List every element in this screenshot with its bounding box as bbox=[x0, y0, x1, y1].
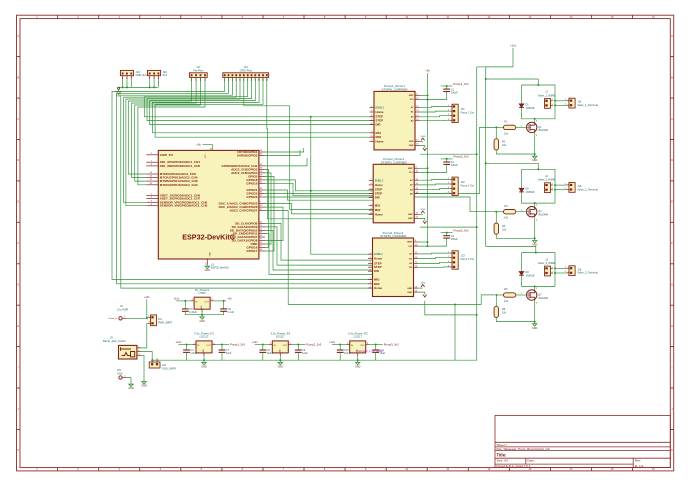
svg-text:3V3: 3V3 bbox=[205, 155, 207, 158]
wire Pump2_Driver1 out 2 bbox=[419, 183, 450, 186]
wire valve2 loop bbox=[522, 169, 556, 203]
wire Pump2_Driver1 out 3 bbox=[419, 189, 450, 190]
svg-text:PWR_JMPR: PWR_JMPR bbox=[158, 321, 172, 324]
wire +12v vertical rail bbox=[485, 67, 487, 247]
wire Pump1_Driver1 VCC to cap bbox=[420, 92, 447, 100]
wire Q7 source bbox=[534, 300, 536, 322]
wire Pump2_Driver1 out 4 bbox=[419, 192, 450, 194]
wire to J15 pin1 bbox=[555, 184, 566, 186]
wire gate to R2 bbox=[495, 295, 497, 306]
ground at J10 bbox=[129, 382, 133, 387]
wire to J16 pin1 bbox=[555, 267, 566, 269]
wire GPIO23 to valve2 gate bbox=[265, 197, 497, 212]
ground under 3.3v_Power_P2 bbox=[278, 360, 282, 365]
wire gate to R2 bbox=[495, 127, 497, 138]
wire GND bus under J19/J20 bbox=[119, 86, 158, 88]
wire +12v flag down bbox=[146, 299, 148, 318]
wire Q1 drain bbox=[534, 119, 536, 123]
wire L7805 out to +5v bbox=[214, 300, 226, 302]
wire GPIO26 loop bbox=[265, 207, 283, 240]
svg-text:G: G bbox=[671, 283, 673, 287]
svg-text:GND: GND bbox=[205, 269, 211, 272]
svg-text:Pump2_3v3: Pump2_3v3 bbox=[454, 155, 469, 159]
svg-text:32K_XN/GPIO33/ADC1_CH5: 32K_XN/GPIO33/ADC1_CH5 bbox=[160, 164, 201, 168]
svg-text:GPIO17: GPIO17 bbox=[246, 249, 257, 253]
svg-text:MSP: MSP bbox=[408, 168, 413, 170]
svg-text:GND_JMPR: GND_JMPR bbox=[162, 367, 176, 370]
U1 right pins bbox=[259, 151, 265, 153]
ground valve2 bbox=[533, 238, 537, 243]
ground under U1 bbox=[205, 264, 209, 269]
svg-text:12v_PWR: 12v_PWR bbox=[117, 309, 128, 312]
svg-text:GND: GND bbox=[141, 385, 147, 388]
svg-text:GND: GND bbox=[421, 283, 426, 285]
svg-text:+12v: +12v bbox=[329, 340, 336, 344]
wire driver2 gnd to bus bbox=[420, 226, 477, 228]
wire J13 pin6 to driver2 M01 bbox=[244, 77, 373, 209]
wire branch to driver3 ENBL2 row bbox=[311, 117, 373, 254]
svg-text:Rev:: Rev: bbox=[635, 459, 642, 463]
svg-text:OUT: OUT bbox=[206, 345, 211, 347]
wire J10 to gnd bbox=[127, 378, 132, 383]
wire J13 pin7 to driver1 STEP bbox=[144, 77, 374, 116]
svg-text:MTDO/GPIO15/ADC2_CH3: MTDO/GPIO15/ADC2_CH3 bbox=[160, 183, 198, 187]
wire to J14 pin2 bbox=[555, 104, 566, 106]
svg-text:OUT: OUT bbox=[360, 345, 365, 347]
svg-text:110uF: 110uF bbox=[344, 352, 351, 355]
svg-text:Pump2_3v3: Pump2_3v3 bbox=[306, 343, 321, 347]
svg-text:Pump 2 Out: Pump 2 Out bbox=[461, 184, 475, 187]
regulator 3.3v_Power_P1 bbox=[193, 332, 216, 356]
wire +12v to L7805 in bbox=[176, 300, 190, 302]
connector J12 GND_JMPR bbox=[149, 362, 160, 368]
wire Pump1_Driver1 MSP to +5v rail bbox=[420, 94, 428, 96]
svg-text:110uF: 110uF bbox=[190, 352, 197, 355]
svg-text:Home: Home bbox=[374, 286, 382, 290]
ground under L7805 bbox=[200, 315, 204, 320]
svg-text:GND: GND bbox=[117, 372, 123, 375]
svg-text:GND: GND bbox=[201, 365, 207, 368]
wire Pump3_Driver1 out 4 bbox=[418, 266, 449, 268]
wire gate left seg bbox=[496, 211, 503, 213]
svg-text:GND: GND bbox=[421, 136, 426, 138]
svg-text:+12v: +12v bbox=[175, 340, 182, 344]
svg-text:ESP32-DevKitC: ESP32-DevKitC bbox=[211, 266, 230, 270]
svg-text:Id: 1/1: Id: 1/1 bbox=[635, 464, 644, 468]
svg-text:+12v: +12v bbox=[510, 44, 517, 48]
svg-text:GND: GND bbox=[199, 320, 205, 323]
wire J13 pin4 to SENSOR_VP bbox=[124, 77, 237, 202]
svg-text:Barrel_Jack_Switch: Barrel_Jack_Switch bbox=[103, 339, 126, 343]
svg-text:J17: J17 bbox=[196, 65, 201, 69]
wire GPIO22 to valve1 gate bbox=[265, 127, 496, 193]
svg-text:0.33uF: 0.33uF bbox=[189, 311, 197, 314]
capacitor C3 body bbox=[443, 236, 450, 238]
wire J17 pin1 to MTDI bbox=[128, 77, 191, 174]
capacitor C7 bbox=[219, 350, 226, 352]
svg-text:CHIP_PU: CHIP_PU bbox=[160, 153, 174, 157]
svg-text:Pump 1 Out: Pump 1 Out bbox=[461, 111, 475, 114]
wire Pump1_Driver1 out 2 bbox=[420, 110, 450, 113]
svg-text:D: D bbox=[671, 158, 673, 162]
wire driver1 gnd to bus bbox=[420, 153, 477, 155]
svg-text:Pump 3 Out: Pump 3 Out bbox=[461, 258, 475, 261]
wire to C5 bbox=[184, 301, 186, 309]
wire J13 pin5 to SENSOR_VN bbox=[126, 77, 240, 205]
wire Q7 drain bbox=[534, 286, 536, 290]
svg-text:GND: GND bbox=[421, 209, 426, 211]
svg-text:Valve_2_Terminal: Valve_2_Terminal bbox=[577, 187, 598, 191]
wire gate left seg bbox=[496, 294, 503, 296]
svg-text:H: H bbox=[17, 324, 19, 328]
svg-text:GND: GND bbox=[128, 387, 134, 390]
wire Pump3_Driver1 VCC to cap bbox=[418, 238, 447, 246]
resistor R4 bbox=[494, 223, 498, 234]
svg-text:Pump1_3v3: Pump1_3v3 bbox=[454, 82, 469, 86]
wire barrel pin2 down bbox=[141, 352, 152, 359]
wire Pump1_Driver1 out 1 bbox=[420, 106, 450, 109]
wire U0RXD stub bbox=[265, 150, 300, 156]
svg-text:M01: M01 bbox=[376, 131, 382, 135]
svg-text:Title:: Title: bbox=[497, 452, 507, 457]
connector J22 Pump Out bbox=[452, 177, 458, 195]
svg-text:Home: Home bbox=[376, 140, 384, 144]
capacitor C6 bbox=[220, 309, 227, 311]
svg-text:Valve_1_Terminal: Valve_1_Terminal bbox=[577, 103, 598, 107]
wire to J16 pin2 bbox=[555, 272, 566, 274]
J13 body bbox=[223, 73, 269, 82]
svg-text:C: C bbox=[17, 117, 19, 121]
svg-text:IRLZ44N: IRLZ44N bbox=[538, 297, 548, 300]
wire valve3 loop bbox=[522, 253, 556, 287]
svg-text:A: A bbox=[671, 34, 673, 38]
wire J13 pin1 to driver3 M01 bbox=[112, 77, 373, 279]
wire gate right seg bbox=[516, 294, 529, 296]
svg-text:0.1uF: 0.1uF bbox=[228, 311, 235, 314]
svg-text:H: H bbox=[671, 324, 673, 328]
wire +12v down bbox=[486, 48, 513, 67]
wire J13 pin9 to driver1 DIR bbox=[150, 77, 374, 124]
svg-text:K: K bbox=[17, 448, 19, 452]
wire +12v feed valve3 bbox=[486, 246, 536, 252]
svg-text:J13: J13 bbox=[244, 65, 249, 69]
U1 bottom GND pin bbox=[206, 259, 208, 264]
wire SD_CLK to driver3 bbox=[265, 223, 373, 260]
svg-text:L7805: L7805 bbox=[198, 291, 206, 295]
wire +12v in bbox=[332, 344, 346, 346]
svg-text:Home: Home bbox=[375, 183, 383, 187]
wire gate left seg bbox=[496, 126, 503, 128]
wire out bbox=[369, 344, 383, 346]
wire reg gnd bbox=[279, 356, 281, 360]
wire bottom gnd rail bbox=[152, 359, 455, 361]
op-amp U1 ESP32-DevKitC module body bbox=[158, 150, 259, 259]
svg-text:3v3: 3v3 bbox=[163, 73, 168, 77]
svg-text:STSPIN_CARRIER: STSPIN_CARRIER bbox=[381, 160, 408, 164]
wire Pump2_Driver1 MSP to +5v rail bbox=[419, 167, 428, 169]
svg-text:10uF: 10uF bbox=[226, 352, 232, 355]
svg-text:E: E bbox=[17, 200, 19, 204]
wire to driver3 DIR bbox=[265, 234, 373, 275]
ground under J19 bbox=[116, 89, 120, 94]
wire U0TXD stub bbox=[265, 148, 304, 152]
svg-text:MSP: MSP bbox=[407, 242, 412, 244]
wire gate to R2 bbox=[495, 212, 497, 223]
svg-text:1N5818: 1N5818 bbox=[526, 107, 535, 110]
title block bbox=[495, 416, 670, 468]
svg-text:Home: Home bbox=[376, 110, 384, 114]
svg-text:B: B bbox=[671, 75, 673, 79]
svg-text:+12v: +12v bbox=[173, 297, 180, 301]
wire valve1 loop bbox=[522, 85, 556, 119]
svg-text:GND: GND bbox=[532, 327, 538, 330]
wire Q4 drain bbox=[534, 203, 536, 207]
wire driver3 gnd to bus bbox=[425, 301, 477, 315]
svg-text:LD1117: LD1117 bbox=[353, 335, 362, 339]
wire J17 pin2 to MTCK bbox=[132, 77, 197, 177]
wire +5v to U1 3V3 pin bbox=[203, 145, 213, 151]
svg-text:100uF: 100uF bbox=[451, 91, 459, 94]
svg-text:110uF: 110uF bbox=[267, 352, 274, 355]
svg-text:10uF: 10uF bbox=[302, 352, 308, 355]
wire J13 pin10 to driver1 M01 bbox=[152, 77, 374, 132]
svg-text:ENBL2: ENBL2 bbox=[376, 106, 385, 110]
svg-text:GND: GND bbox=[278, 365, 284, 368]
capacitor C9 bbox=[295, 350, 302, 352]
capacitor C2 body bbox=[443, 162, 450, 164]
wire +5v vertical rail bbox=[427, 73, 429, 246]
wire out bbox=[292, 344, 306, 346]
svg-text:SENSOR_VN/GPIO39/ADC1_CH3: SENSOR_VN/GPIO39/ADC1_CH3 bbox=[160, 204, 208, 208]
wire to driver3 STEP2 bbox=[265, 230, 373, 270]
svg-text:IRLZ44N: IRLZ44N bbox=[538, 214, 548, 217]
wire R2 to source gnd node bbox=[496, 150, 534, 154]
svg-text:OUT: OUT bbox=[283, 345, 288, 347]
svg-text:Valve_3_WIRE: Valve_3_WIRE bbox=[538, 261, 556, 265]
connector J11 PWR_JMPR bbox=[151, 315, 157, 326]
wire GPIO4 loop bbox=[265, 173, 271, 244]
wire Pump2_Driver1 VCC to cap bbox=[419, 165, 447, 173]
wire J11 pin2 to barrel jack bbox=[141, 323, 148, 348]
capacitor C1 body bbox=[443, 89, 450, 91]
wire J12 pin2 to rail bbox=[156, 359, 158, 361]
wire C1 top to flag bbox=[441, 85, 453, 87]
svg-text:M01: M01 bbox=[374, 277, 380, 281]
wire J13 pin3 to driver3 Home bbox=[121, 77, 373, 288]
svg-text:Pump3_3v3: Pump3_3v3 bbox=[384, 343, 399, 347]
resistor R6 bbox=[494, 306, 498, 317]
J17 body bbox=[189, 73, 207, 82]
wire Pump3_Driver1 out 3 bbox=[418, 262, 449, 263]
svg-text:GND: GND bbox=[409, 141, 414, 143]
svg-text:G: G bbox=[17, 283, 19, 287]
wire GPIO19 to driver2 STEP2 bbox=[265, 183, 373, 195]
ground under 3.3v_Power_P1 bbox=[202, 360, 206, 365]
svg-text:GPIO23: GPIO23 bbox=[246, 195, 257, 199]
svg-text:ENBL2: ENBL2 bbox=[375, 179, 384, 183]
wire Q4 source bbox=[534, 217, 536, 239]
transistor Q7 IRLZ44N bbox=[527, 290, 537, 300]
wire Pump1_Driver1 out 3 bbox=[420, 116, 450, 117]
diode D3 bbox=[519, 272, 524, 276]
svg-text:GND: GND bbox=[408, 218, 413, 220]
wire +12v feed valve2 bbox=[486, 162, 539, 164]
svg-text:File: Takasago_Proto_Board.kic: File: Takasago_Proto_Board.kicad_sch bbox=[497, 447, 551, 451]
wire to C6 bbox=[223, 301, 225, 309]
wire J13 pin12 to driver2 Home bbox=[267, 77, 373, 218]
svg-text:Pump3_3v3: Pump3_3v3 bbox=[454, 228, 469, 232]
wire to driver3 STEP bbox=[265, 227, 373, 265]
wire Q1 source bbox=[534, 132, 536, 154]
svg-text:ADC2_CH7/GPIO27: ADC2_CH7/GPIO27 bbox=[229, 209, 257, 213]
U1 left pins bbox=[146, 154, 158, 156]
svg-text:GND: GND bbox=[407, 288, 412, 290]
svg-text:B: B bbox=[17, 75, 19, 79]
connector J21 Pump Out bbox=[452, 104, 458, 122]
wire GPIO27 to valve3 gate bbox=[265, 211, 495, 305]
svg-text:M01: M01 bbox=[375, 204, 381, 208]
svg-text:100uF: 100uF bbox=[451, 238, 459, 241]
svg-text:GPIO19: GPIO19 bbox=[246, 181, 257, 185]
svg-text:MSP: MSP bbox=[409, 95, 414, 97]
svg-text:KiCad E.D.A. kicad 7.0.1: KiCad E.D.A. kicad 7.0.1 bbox=[497, 464, 531, 468]
wire reg gnd bbox=[357, 356, 359, 360]
svg-text:OUT: OUT bbox=[205, 302, 210, 304]
svg-text:GND: GND bbox=[210, 252, 212, 257]
resistor R2 bbox=[494, 139, 498, 150]
connector J19 GND pins bbox=[120, 70, 133, 80]
regulator 3.3v_Power_P3 bbox=[346, 332, 369, 356]
capacitor C10 bbox=[337, 350, 344, 352]
wire +12v in bbox=[178, 344, 192, 346]
wire out bbox=[216, 344, 230, 346]
svg-text:GND: GND bbox=[355, 365, 361, 368]
wire GPIO18 to driver2 STEP bbox=[265, 180, 373, 191]
svg-text:GND: GND bbox=[409, 145, 414, 147]
wire gate right seg bbox=[516, 211, 529, 213]
diode D1 bbox=[519, 104, 524, 108]
svg-text:IRLZ44N: IRLZ44N bbox=[538, 129, 548, 132]
wire gate right seg bbox=[516, 126, 529, 128]
wire GPIO0 stub bbox=[265, 158, 307, 166]
svg-text:+5v: +5v bbox=[227, 297, 232, 301]
capacitor C8 bbox=[259, 350, 266, 352]
wire Pump3_Driver1 MSP to +5v rail bbox=[418, 241, 428, 243]
wire Pump3_Driver1 out 1 bbox=[418, 252, 449, 255]
svg-text:1N5818: 1N5818 bbox=[526, 191, 535, 194]
svg-text:Pump1_3v3: Pump1_3v3 bbox=[230, 343, 245, 347]
ground at barrel jack bbox=[142, 380, 146, 385]
transistor Q4 IRLZ44N bbox=[527, 207, 537, 217]
svg-text:Power_In: Power_In bbox=[108, 317, 118, 320]
svg-text:100uF: 100uF bbox=[451, 164, 459, 167]
connector J23 Pump Out bbox=[452, 251, 458, 269]
svg-text:Valve_1_WIRE: Valve_1_WIRE bbox=[538, 93, 556, 97]
svg-text:Thermistor_1_Pin_header: Thermistor_1_Pin_header bbox=[357, 350, 384, 353]
svg-text:STSPIN_CARRIER: STSPIN_CARRIER bbox=[381, 87, 408, 91]
connector J20 3v3 bbox=[148, 70, 161, 80]
svg-text:Date:: Date: bbox=[527, 459, 535, 463]
wire to J15 pin2 bbox=[555, 189, 566, 191]
wire to J11 pin1 bbox=[147, 317, 148, 318]
svg-text:Valve_3_Terminal: Valve_3_Terminal bbox=[577, 271, 598, 275]
wire reg gnd bbox=[203, 356, 205, 360]
wire GPIO2 loop bbox=[265, 169, 269, 247]
svg-text:A: A bbox=[17, 34, 19, 38]
capacitor C4 bbox=[183, 350, 190, 352]
svg-text:STSPIN_CARRIER: STSPIN_CARRIER bbox=[380, 234, 407, 238]
svg-text:+5v: +5v bbox=[196, 143, 201, 147]
svg-text:GND: GND bbox=[532, 244, 538, 247]
svg-text:Home: Home bbox=[375, 212, 383, 216]
wire J13 pin2 to driver3 M02 bbox=[117, 77, 373, 283]
svg-text:+12v: +12v bbox=[252, 340, 259, 344]
junction at driver1 STEP row bbox=[310, 116, 312, 118]
svg-text:U0RXD/GPIO3: U0RXD/GPIO3 bbox=[237, 154, 258, 158]
wire J8 to jumper bbox=[127, 317, 147, 319]
wire R2 to source gnd node bbox=[496, 318, 534, 322]
ground valve1 bbox=[533, 154, 537, 159]
wire bus top link bbox=[477, 66, 486, 68]
svg-text:E: E bbox=[671, 200, 673, 204]
wire J13 pin8 to driver1 STEP2 bbox=[147, 77, 374, 120]
svg-text:K: K bbox=[671, 448, 673, 452]
wire Pump3_Driver1 out 2 bbox=[418, 257, 449, 260]
wire barrel pin3 to gnd bbox=[141, 355, 144, 379]
svg-text:Size: A3: Size: A3 bbox=[497, 459, 509, 463]
wire J13 pin11 to driver1 M02 bbox=[155, 77, 374, 137]
wire L7805 gnd bbox=[201, 309, 203, 315]
wire Pump1_Driver1 out 4 bbox=[420, 119, 450, 121]
svg-text:GND: GND bbox=[532, 159, 538, 162]
wire +12v in bbox=[255, 344, 269, 346]
svg-text:GND pins: GND pins bbox=[136, 73, 148, 77]
wire GPIO25 to driver2 M02 bbox=[265, 204, 373, 214]
svg-text:Home: Home bbox=[374, 257, 382, 261]
ground valve3 bbox=[533, 322, 537, 327]
regulator U 5v_Power1 L7805 bbox=[191, 288, 214, 312]
ground under 3.3v_Power_P3 bbox=[356, 360, 360, 365]
wire C3 top to flag bbox=[441, 232, 453, 234]
svg-text:1N5818: 1N5818 bbox=[526, 274, 535, 277]
wire C5/C6 gnd link bbox=[185, 311, 223, 314]
svg-text:ENBL2: ENBL2 bbox=[374, 252, 383, 256]
svg-text:GND: GND bbox=[407, 292, 412, 294]
wire to J14 pin1 bbox=[555, 100, 566, 102]
wire J17 pin4 to MTDO bbox=[138, 77, 205, 184]
svg-text:Pwr Pins: Pwr Pins bbox=[193, 68, 204, 72]
regulator 3.3v_Power_P2 bbox=[269, 332, 292, 356]
wire R2 to source gnd node bbox=[496, 234, 534, 238]
wire J17 pin3 to MTMS bbox=[135, 77, 201, 181]
wire drop to gnd rail bbox=[454, 305, 456, 361]
transistor Q1 IRLZ44N bbox=[527, 122, 537, 132]
svg-text:+5v: +5v bbox=[425, 69, 430, 73]
svg-text:LD1117: LD1117 bbox=[276, 335, 285, 339]
capacitor C11 bbox=[372, 350, 379, 352]
svg-text:+12v: +12v bbox=[144, 295, 151, 299]
svg-text:LD1117: LD1117 bbox=[200, 335, 209, 339]
wire +12v feed valve1 bbox=[486, 78, 539, 80]
wire gnd bus vertical bbox=[455, 67, 477, 360]
svg-text:GND: GND bbox=[408, 214, 413, 216]
svg-text:C: C bbox=[671, 117, 673, 121]
wire Pump2_Driver1 out 1 bbox=[419, 178, 450, 181]
wire C2 top to flag bbox=[441, 158, 453, 160]
wire GPIO21 to driver2 DIR bbox=[265, 190, 373, 200]
svg-text:Valve_2_WIRE: Valve_2_WIRE bbox=[538, 178, 556, 182]
svg-text:ESP32-DevKitC: ESP32-DevKitC bbox=[182, 233, 235, 242]
